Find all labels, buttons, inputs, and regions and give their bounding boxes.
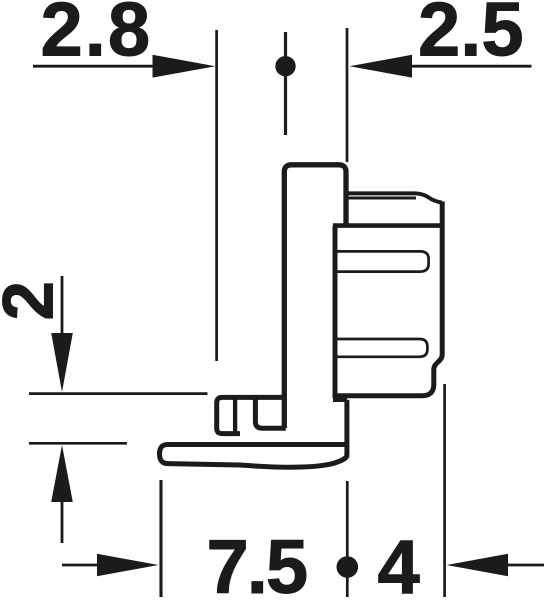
housing left edge <box>333 226 338 398</box>
dimension line 7.5 shaft <box>62 564 99 567</box>
svg-text:7.5: 7.5 <box>207 525 307 600</box>
foot <box>160 445 348 468</box>
slot 2 <box>334 339 427 357</box>
dimension line 4 shaft <box>506 564 544 567</box>
extension line hook left edge <box>215 30 218 361</box>
dimension line 2.8 shaft <box>33 65 155 68</box>
hook middle bar <box>233 399 237 434</box>
extension line housing right <box>443 384 446 597</box>
svg-text:2.5: 2.5 <box>418 0 524 73</box>
extension line foot left <box>159 480 162 597</box>
dimension arrow 2.5 left-pointing <box>350 55 413 78</box>
svg-text:2.8: 2.8 <box>41 0 153 73</box>
dimension arrow 2.8 right-pointing <box>153 55 216 78</box>
housing top edge with chamfer <box>346 193 442 202</box>
dimension 2 upper shaft <box>61 276 64 334</box>
plate lower right edge <box>344 400 349 458</box>
extension line tab right edge <box>346 28 349 162</box>
dimension arrow 2 up-pointing <box>51 445 73 502</box>
hook outer top and left and bottom <box>217 397 285 433</box>
centerline top <box>284 32 287 135</box>
extension line bottom center <box>346 481 349 597</box>
slot 1 <box>334 251 429 271</box>
housing step line <box>333 223 441 228</box>
svg-text:2: 2 <box>0 281 69 321</box>
extension line 2 upper <box>29 392 208 395</box>
extension line 2 lower <box>29 442 127 445</box>
svg-text:4: 4 <box>378 525 420 600</box>
dimension arrow 4 left-pointing <box>447 554 509 576</box>
dimension 2 lower shaft <box>61 500 64 543</box>
dimension arrow 2 down-pointing <box>51 333 73 392</box>
centerline dot bottom <box>337 556 359 578</box>
plate step below housing <box>333 398 347 402</box>
plate top tab and left edge <box>284 165 346 428</box>
dimension arrow 7.5 right-pointing <box>97 554 159 576</box>
housing right edge with step and bottom <box>337 202 443 396</box>
centerline dot top <box>275 56 295 76</box>
hook right bar and window bottom <box>255 398 285 428</box>
dimension line 2.5 shaft <box>410 65 532 68</box>
housing top parallel line <box>348 197 416 200</box>
